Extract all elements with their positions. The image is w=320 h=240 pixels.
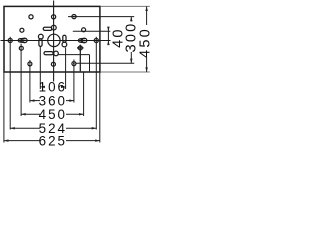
right keyhole tangent top [80, 37, 85, 40]
extension line 625 left [3, 73, 5, 143]
extension line 360 right [73, 60, 75, 103]
top keyhole slot bulge [51, 25, 56, 30]
arrowhead 450 vertical bottom [145, 67, 148, 72]
right group bottom hole vertical tick [79, 45, 81, 72]
svg-text:625: 625 [39, 133, 67, 148]
left keyhole big circle [23, 38, 27, 42]
top row hole center [52, 15, 56, 19]
arrowhead 450 right [79, 113, 84, 116]
right group bottom hole horizontal tick [77, 47, 84, 49]
arrowhead 625 left [4, 139, 9, 142]
extension line 360 left [29, 60, 31, 103]
arrowhead 40 top [107, 27, 110, 32]
leader line bottom hole row [76, 62, 134, 64]
right keyhole big circle [82, 38, 86, 42]
top row hole right [72, 15, 76, 19]
top edge extension line (right) [101, 5, 150, 7]
left keyhole tangent bottom [20, 41, 25, 44]
dim line 106 right segment [64, 86, 66, 88]
leader line 40mm hole row [73, 30, 111, 32]
bottom row target hole right [72, 62, 76, 66]
extension line 524 left [9, 37, 11, 130]
horizontal centerline [1, 40, 111, 42]
svg-text:450: 450 [39, 107, 67, 122]
right group bottom crosshair hole [78, 46, 82, 50]
arrowhead 450 left [21, 113, 26, 116]
left keyhole big circle dot [24, 40, 26, 42]
left keyhole tangent top [20, 37, 25, 40]
dim line 524 left segment [10, 127, 40, 129]
knockout box right edge [89, 55, 91, 72]
leader line top hole row [68, 16, 134, 18]
bottom row hole center [51, 62, 55, 66]
dim line 625 left segment [4, 140, 40, 142]
top row hole left [29, 15, 33, 19]
dim line 625 right segment [66, 140, 100, 142]
arrowhead 300 bottom [130, 59, 133, 64]
vertical centerline [53, 1, 55, 82]
dim line 450 vertical bottom segment [146, 58, 148, 73]
dim line 450 vertical top segment [146, 6, 148, 25]
dim line 300 top segment [130, 17, 132, 22]
right keyhole slot bulge [62, 42, 67, 47]
arrowhead 524 left [10, 127, 15, 130]
dim line 450 left segment [21, 113, 40, 115]
svg-text:450: 450 [137, 27, 153, 58]
arrowhead 40 bottom [107, 41, 110, 46]
left target hole center dot [9, 40, 11, 42]
left keyhole slot bulge [38, 34, 43, 39]
right target hole [94, 38, 98, 42]
right keyhole big circle dot [84, 40, 86, 42]
left group bottom hole [19, 46, 23, 50]
dim line 106 left segment [40, 86, 41, 88]
arrowhead 300 top [130, 17, 133, 22]
extension line 106 right [65, 48, 67, 90]
right group top hole [82, 28, 86, 32]
left keyhole slot tail [39, 39, 42, 47]
dim line 40 vertical [107, 27, 109, 45]
bottom row target hole dot [73, 63, 75, 65]
dim line 300 bottom segment [130, 52, 132, 63]
extension line 450 right [83, 72, 85, 116]
arrowhead 524 right [92, 127, 97, 130]
extension line 625 right [99, 73, 101, 143]
dim line 524 right segment [66, 127, 96, 129]
arrowhead 625 right [95, 139, 100, 142]
bottom keyhole slot tail [44, 52, 53, 55]
right keyhole small circle [78, 39, 81, 42]
left group top hole [20, 28, 24, 32]
extension line 450 left [20, 44, 22, 116]
bottom keyhole slot bulge [54, 51, 59, 56]
dim line 360 left segment [30, 100, 40, 102]
knockout box top edge [58, 54, 90, 56]
arrowhead 450 vertical top [145, 6, 148, 11]
right target hole center dot [96, 40, 98, 42]
dim line 450 right segment [66, 113, 84, 115]
left keyhole small circle [18, 39, 21, 42]
bottom row hole left [28, 62, 32, 66]
right keyhole slot tail [63, 35, 66, 42]
top keyhole slot tail [43, 27, 52, 30]
arrowhead 360 left [30, 99, 35, 102]
bottom edge extension line (right) [101, 71, 150, 73]
right keyhole tangent bottom [80, 41, 85, 44]
arrowhead 106 right [61, 86, 66, 89]
top row hole right center dot [73, 16, 75, 18]
extension line 106 left [39, 46, 41, 89]
extension line 524 right [95, 37, 97, 130]
arrowhead 360 right [69, 99, 74, 102]
svg-text:106: 106 [39, 80, 67, 95]
dim line 360 right segment [66, 100, 74, 102]
left target hole [8, 38, 12, 42]
big center circle [48, 34, 60, 46]
plate outline 625x450 [4, 6, 100, 72]
arrowhead 106 left [40, 86, 45, 89]
